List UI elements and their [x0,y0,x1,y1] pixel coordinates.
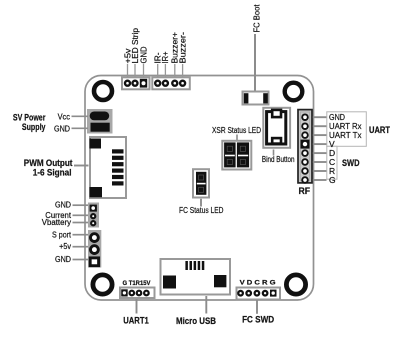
svg-text:G T1R15V: G T1R15V [123,280,152,287]
svg-text:GND: GND [139,46,148,63]
svg-text:Micro USB: Micro USB [176,316,216,326]
svg-text:GND: GND [55,201,71,210]
svg-text:Buzzer-: Buzzer- [178,32,187,64]
svg-text:Supply: Supply [22,122,46,132]
svg-text:FC Boot: FC Boot [252,4,262,33]
svg-text:Vbattery: Vbattery [42,218,71,227]
svg-text:XSR Status LED: XSR Status LED [212,125,261,135]
svg-text:UART: UART [369,125,390,135]
svg-text:RF: RF [299,186,311,196]
svg-text:FC Status LED: FC Status LED [179,205,224,215]
svg-text:UART1: UART1 [123,316,149,326]
svg-text:GND: GND [54,125,70,134]
svg-text:V D C R G: V D C R G [240,280,276,287]
svg-text:G: G [329,175,336,185]
svg-text:GND: GND [55,255,71,264]
svg-text:SWD: SWD [342,158,360,168]
svg-text:1-6 Signal: 1-6 Signal [33,167,72,177]
svg-text:S port: S port [52,230,72,239]
svg-text:FC SWD: FC SWD [242,315,274,325]
svg-text:Vcc: Vcc [58,112,70,121]
svg-text:+5v: +5v [59,242,71,251]
svg-text:IR+: IR+ [161,51,170,63]
svg-text:Bind Button: Bind Button [262,154,295,164]
